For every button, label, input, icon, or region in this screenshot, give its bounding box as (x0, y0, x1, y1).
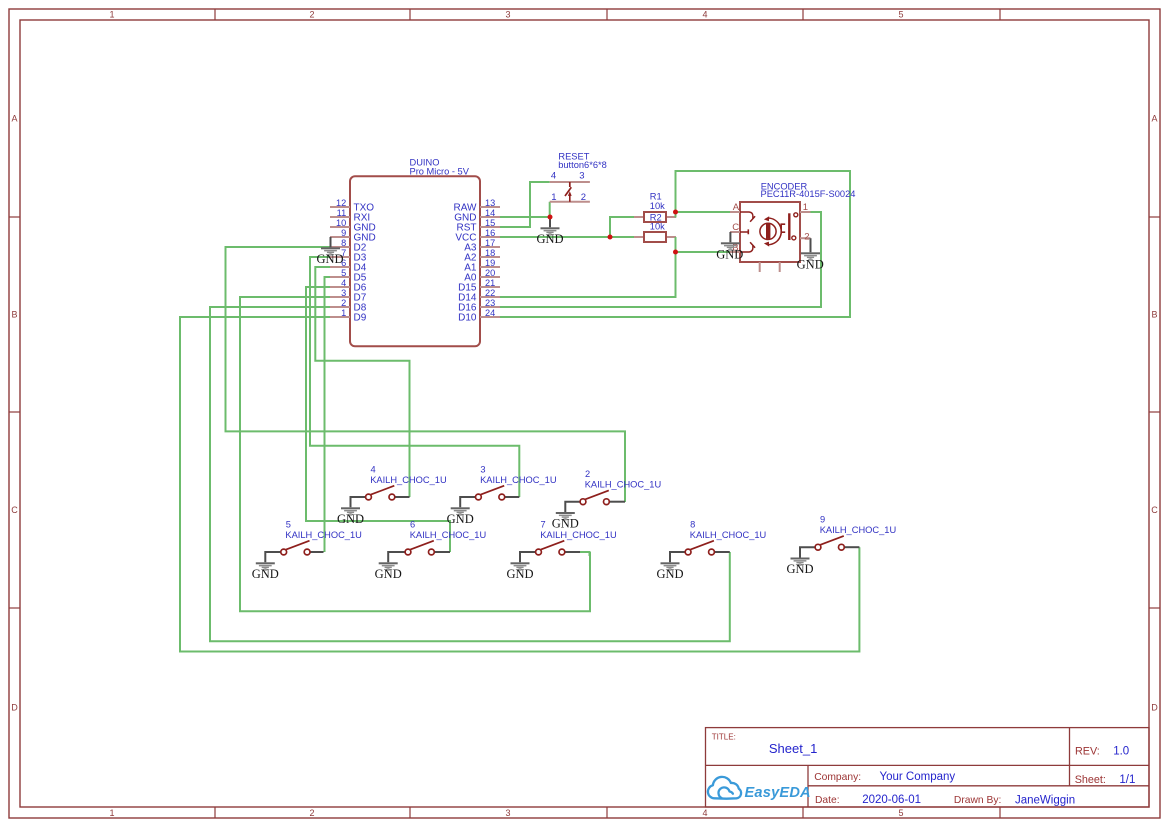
svg-text:KAILH_CHOC_1U: KAILH_CHOC_1U (410, 530, 486, 540)
ground at SW8 (661, 562, 680, 571)
svg-text:19: 19 (485, 258, 495, 268)
U1 right pin numbers 13..24 (485, 198, 495, 318)
svg-text:8: 8 (341, 238, 346, 248)
svg-text:B: B (11, 310, 17, 320)
wire net D3 to SW3 (310, 257, 519, 497)
svg-text:KAILH_CHOC_1U: KAILH_CHOC_1U (480, 475, 556, 485)
U1 right pin names (454, 202, 478, 323)
svg-text:C: C (11, 505, 18, 515)
svg-text:2: 2 (581, 192, 586, 203)
junction reset-gnd (548, 215, 553, 220)
RESET actuator lever (565, 187, 571, 196)
key switch SW4 KAILH_CHOC_1U (351, 464, 447, 507)
wire RST to reset button pin 4 (500, 182, 550, 227)
U2 rotation arrow lower (768, 222, 781, 244)
op chip U1 DUINO Pro Micro body (350, 176, 480, 346)
U2 pin 1 stub (800, 211, 811, 213)
svg-text:GND: GND (252, 567, 279, 581)
svg-text:C: C (732, 222, 739, 233)
wire net D5 to SW5 (325, 277, 331, 552)
svg-text:17: 17 (485, 238, 495, 248)
ground at reset button (549, 217, 551, 227)
rotary encoder U2 body (740, 202, 800, 262)
svg-text:KAILH_CHOC_1U: KAILH_CHOC_1U (690, 530, 766, 540)
wire net D10 / R1 / encoder A (500, 171, 850, 317)
wire net D9 to SW9 (180, 317, 859, 652)
wire branch encoder A (676, 211, 731, 213)
svg-text:7: 7 (541, 519, 546, 529)
wire VCC to R1 R2 (500, 236, 634, 238)
svg-text:1/1: 1/1 (1119, 774, 1135, 786)
resistor R1 leads (634, 216, 644, 218)
key switch SW2 KAILH_CHOC_1U (565, 469, 661, 512)
svg-text:4: 4 (551, 170, 556, 181)
key switch SW5 KAILH_CHOC_1U (265, 519, 362, 562)
wire VCC branch to R1 (610, 217, 634, 237)
svg-text:C: C (1151, 505, 1158, 515)
svg-text:22: 22 (485, 288, 495, 298)
frame row letters left (11, 114, 18, 713)
U2 push contact circle 2 (792, 236, 796, 240)
wire net D8 to SW8 (210, 307, 730, 641)
key switch SW8 KAILH_CHOC_1U (670, 519, 766, 562)
svg-text:GND: GND (337, 512, 364, 526)
wire R2 right stub to junction (675, 237, 677, 252)
svg-text:A: A (733, 202, 740, 213)
title block frame (706, 728, 1150, 807)
svg-text:2: 2 (341, 298, 346, 308)
key switch SW7 KAILH_CHOC_1U (520, 519, 617, 562)
svg-text:Sheet:: Sheet: (1075, 774, 1106, 786)
svg-text:3: 3 (505, 10, 510, 20)
junction R2-B-D14 (673, 250, 678, 255)
svg-text:1: 1 (803, 202, 808, 213)
U2 push contact circle 1 (794, 213, 798, 217)
resistor R2 leads (634, 236, 644, 238)
svg-text:4: 4 (702, 10, 707, 20)
U2 pin A stub (730, 211, 740, 213)
U2 mounting stubs (759, 262, 761, 272)
svg-text:3: 3 (341, 288, 346, 298)
svg-text:GND: GND (797, 258, 824, 272)
svg-text:KAILH_CHOC_1U: KAILH_CHOC_1U (540, 530, 616, 540)
svg-text:3: 3 (579, 170, 584, 181)
U2 rotation arrow upper (768, 218, 781, 240)
ground at U2 pin 2 (810, 238, 812, 252)
svg-text:5: 5 (341, 268, 346, 278)
svg-text:15: 15 (485, 218, 495, 228)
U1 left pin names (354, 202, 376, 323)
svg-text:D10: D10 (458, 312, 477, 323)
frame row letters right (1151, 114, 1158, 713)
svg-text:11: 11 (337, 208, 347, 218)
wire U1 pin9 GND elbow (330, 237, 332, 247)
pushbutton RESET top bar pins 4-3 (550, 181, 590, 183)
svg-text:23: 23 (485, 298, 495, 308)
svg-text:JaneWiggin: JaneWiggin (1015, 794, 1075, 806)
U2 rotor slot bar (766, 224, 770, 239)
svg-text:GND: GND (447, 512, 474, 526)
U2 push switch bar (788, 213, 790, 240)
svg-text:A: A (1151, 114, 1157, 124)
svg-text:Drawn By:: Drawn By: (954, 795, 1002, 806)
U1 left pin numbers 12..1 (336, 198, 346, 318)
wire net D14 / R2 / encoder B (500, 237, 676, 297)
wire net D6 to SW6 (306, 287, 450, 552)
svg-text:3: 3 (505, 808, 510, 818)
RESET actuator arrow (569, 195, 571, 202)
svg-text:5: 5 (898, 808, 903, 818)
U2 contact A (740, 212, 753, 219)
ground at SW4 (341, 507, 360, 516)
key switch SW3 KAILH_CHOC_1U (460, 464, 556, 507)
svg-text:GND: GND (786, 562, 813, 576)
svg-text:GND: GND (716, 247, 743, 261)
key switch SW9 KAILH_CHOC_1U (800, 515, 896, 558)
svg-text:R1: R1 (650, 191, 662, 201)
svg-text:9: 9 (341, 228, 346, 238)
svg-text:Pro Micro - 5V: Pro Micro - 5V (410, 166, 470, 176)
svg-text:D9: D9 (354, 312, 367, 323)
svg-text:12: 12 (336, 198, 346, 208)
svg-text:KAILH_CHOC_1U: KAILH_CHOC_1U (820, 525, 896, 535)
wire net D4 to SW4 (315, 267, 409, 497)
ground at U1 pin 9 (321, 247, 340, 256)
svg-text:KAILH_CHOC_1U: KAILH_CHOC_1U (585, 480, 661, 490)
svg-text:Company:: Company: (814, 772, 861, 783)
svg-text:D: D (11, 703, 18, 713)
svg-text:GND: GND (506, 567, 533, 581)
EasyEDA logo cloud (708, 777, 741, 799)
junction R1-A-D10 (673, 210, 678, 215)
svg-text:2: 2 (804, 232, 809, 243)
svg-text:GND: GND (536, 232, 563, 246)
svg-text:13: 13 (485, 198, 495, 208)
svg-text:KAILH_CHOC_1U: KAILH_CHOC_1U (370, 475, 446, 485)
svg-text:6: 6 (410, 519, 415, 529)
U1 right pin stubs (pins 13..24) (480, 207, 500, 317)
svg-text:TITLE:: TITLE: (712, 733, 736, 742)
svg-text:20: 20 (485, 268, 495, 278)
resistor R1 (644, 212, 666, 222)
svg-text:2: 2 (585, 469, 590, 479)
svg-text:GND: GND (656, 567, 683, 581)
svg-text:Date:: Date: (815, 795, 840, 806)
svg-text:21: 21 (485, 278, 495, 288)
svg-text:14: 14 (485, 208, 495, 218)
svg-text:REV:: REV: (1075, 745, 1100, 757)
svg-text:10k: 10k (650, 222, 665, 232)
wire R1 right stub to junction (675, 212, 677, 218)
U2 pin 2 stub (800, 237, 811, 239)
wire GND pin14 (500, 216, 550, 218)
svg-text:16: 16 (485, 228, 495, 238)
ground at SW9 (791, 558, 810, 567)
svg-text:4: 4 (371, 464, 376, 474)
svg-text:5: 5 (286, 519, 291, 529)
frame column numbers bottom (109, 808, 903, 818)
key switch SW6 KAILH_CHOC_1U (388, 519, 486, 562)
svg-text:PEC11R-4015F-S0024: PEC11R-4015F-S0024 (761, 189, 856, 199)
svg-text:Sheet_1: Sheet_1 (769, 741, 817, 756)
ground at SW5 (256, 562, 275, 571)
svg-text:10: 10 (336, 218, 346, 228)
svg-text:GND: GND (375, 567, 402, 581)
frame column numbers top (109, 10, 903, 20)
ground at SW6 (379, 562, 398, 571)
svg-text:EasyEDA: EasyEDA (745, 785, 811, 801)
wire reset pin1 to ground (549, 202, 551, 217)
svg-text:9: 9 (820, 515, 825, 525)
junction VCC (608, 235, 613, 240)
ground at SW3 (451, 507, 470, 516)
svg-text:GND: GND (316, 252, 343, 266)
svg-text:1: 1 (341, 308, 346, 318)
ground at SW2 (556, 512, 575, 521)
wire branch encoder B (676, 251, 731, 253)
wire net D16 / encoder pin1 (500, 212, 821, 307)
svg-text:1: 1 (109, 808, 114, 818)
wire net D7 to SW7 (240, 297, 590, 611)
svg-text:1: 1 (109, 10, 114, 20)
U2 contact B (740, 245, 753, 252)
svg-text:2020-06-01: 2020-06-01 (862, 794, 921, 806)
svg-text:8: 8 (690, 519, 695, 529)
svg-text:KAILH_CHOC_1U: KAILH_CHOC_1U (285, 530, 361, 540)
svg-text:10k: 10k (650, 201, 665, 211)
svg-text:5: 5 (898, 10, 903, 20)
U2 push switch bracket (781, 224, 785, 232)
svg-text:1.0: 1.0 (1113, 745, 1129, 757)
ground at U2 pin C (729, 232, 731, 242)
RESET actuator tick top (569, 182, 571, 187)
svg-text:button6*6*8: button6*6*8 (558, 160, 607, 170)
U1 left pin stubs (pins 12..1) (330, 207, 350, 317)
pushbutton RESET bottom bar pins 1-2 (550, 201, 590, 203)
resistor R2 (644, 232, 666, 242)
svg-text:2: 2 (309, 808, 314, 818)
svg-text:1: 1 (551, 192, 556, 203)
svg-text:4: 4 (702, 808, 707, 818)
ground at SW7 (511, 562, 530, 571)
wire net D2 to SW2 (226, 247, 626, 502)
U2 pin C stub (730, 231, 740, 233)
svg-text:B: B (1151, 310, 1157, 320)
svg-text:3: 3 (480, 464, 485, 474)
U2 pin B stub (730, 251, 740, 253)
svg-text:2: 2 (309, 10, 314, 20)
svg-text:24: 24 (485, 308, 495, 318)
svg-text:18: 18 (485, 248, 495, 258)
U2 rotor circle (760, 223, 776, 239)
svg-text:Your Company: Your Company (880, 771, 956, 783)
svg-text:A: A (11, 114, 17, 124)
svg-text:4: 4 (341, 278, 346, 288)
U2 contact C (740, 229, 748, 234)
svg-text:GND: GND (552, 517, 579, 531)
svg-text:D: D (1151, 703, 1158, 713)
